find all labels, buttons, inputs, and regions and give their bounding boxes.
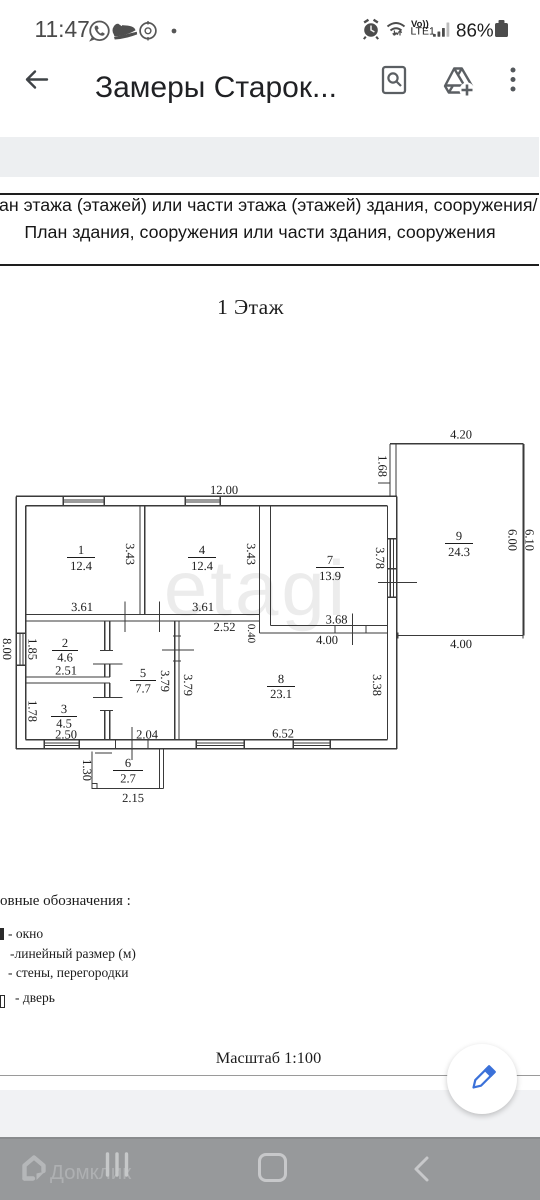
legend row linear size <box>10 946 136 962</box>
room9 bottom dim ticks <box>398 633 523 639</box>
door ticks room7 bottom wall <box>335 626 366 634</box>
svg-text:3.68: 3.68 <box>326 613 348 627</box>
wall main left inner <box>25 506 27 740</box>
recents nav button <box>103 1150 135 1180</box>
porch left wall <box>91 752 93 784</box>
navigation bar <box>0 1137 540 1200</box>
grey gap band above page <box>0 137 539 177</box>
dim tick 3.68 <box>351 614 353 646</box>
room2 box top <box>26 620 105 622</box>
svg-text:2.50: 2.50 <box>55 728 77 742</box>
svg-text:4.6: 4.6 <box>57 651 73 665</box>
svg-text:3.79: 3.79 <box>158 670 172 692</box>
svg-text:4.00: 4.00 <box>316 633 338 647</box>
dim tick 1.30 <box>95 752 112 754</box>
svg-text:8.00: 8.00 <box>0 638 14 660</box>
svg-text:1: 1 <box>78 543 84 557</box>
status time <box>35 16 90 43</box>
wall room8 top line <box>260 632 388 634</box>
svg-text:1.68: 1.68 <box>376 455 390 477</box>
wall rooms2-3 divider <box>26 677 110 683</box>
FAB pencil icon <box>459 1056 505 1102</box>
window W5 bottom wall <box>44 740 79 749</box>
room9 right wall <box>523 444 525 636</box>
window W3 left wall <box>16 633 25 665</box>
door jamb ticks rooms1-4 <box>125 602 160 633</box>
header text line 1 <box>0 195 540 216</box>
svg-text:4.20: 4.20 <box>450 428 472 442</box>
wall rooms1-4 bottom lower line <box>26 620 260 622</box>
status notification icons svg <box>88 14 198 48</box>
svg-text:13.9: 13.9 <box>319 569 341 583</box>
whatsapp icon <box>90 22 109 41</box>
wifi icon <box>388 23 405 34</box>
wall rooms1-4 bottom upper line <box>26 614 260 616</box>
window W6 bottom wall <box>196 740 244 749</box>
svg-text:3.61: 3.61 <box>192 600 214 614</box>
svg-text:6.00: 6.00 <box>506 529 520 551</box>
wall room5-8 right line <box>178 621 180 740</box>
wall main right outer <box>396 496 398 749</box>
svg-text:12.4: 12.4 <box>191 559 214 573</box>
svg-text:1.78: 1.78 <box>26 700 40 722</box>
svg-text:2.52: 2.52 <box>214 620 236 634</box>
kebab menu icon <box>505 64 521 96</box>
domclick house logo <box>20 1154 50 1184</box>
domclick watermark text <box>50 1161 131 1185</box>
svg-text:2: 2 <box>62 636 68 650</box>
svg-text:2.15: 2.15 <box>122 791 144 805</box>
watch badge icon <box>140 21 156 41</box>
svg-text:86%: 86% <box>456 20 494 41</box>
wall main top outer <box>16 495 397 497</box>
svg-text:1.85: 1.85 <box>26 638 40 660</box>
app bar back arrow <box>22 66 50 94</box>
svg-text:8: 8 <box>278 672 284 686</box>
svg-text:12.4: 12.4 <box>70 559 93 573</box>
svg-text:23.1: 23.1 <box>270 687 292 701</box>
room9 left wall upper <box>390 444 396 497</box>
svg-text:3.43: 3.43 <box>123 543 137 565</box>
window W1 top wall <box>63 496 104 506</box>
wall main right inner <box>387 506 389 740</box>
door ticks wall room5-8 <box>162 636 194 661</box>
alarm clock icon <box>363 19 379 40</box>
wall rooms23-5 right line <box>109 621 111 740</box>
svg-text:24.3: 24.3 <box>448 545 470 559</box>
status bar <box>0 0 540 55</box>
dim tick right wall <box>378 581 417 583</box>
table border line 2 <box>0 264 539 266</box>
svg-text:LTE1: LTE1 <box>411 26 435 38</box>
home nav button <box>258 1153 287 1182</box>
porch bottom wall <box>97 787 164 789</box>
wall rooms23-5 left line <box>104 621 106 740</box>
sneaker icon <box>111 19 138 41</box>
bullet dot <box>172 29 177 34</box>
door jambs room2 <box>93 651 123 665</box>
signal bars <box>433 23 449 37</box>
wall rooms1-4 divider <box>140 506 145 615</box>
svg-text:5: 5 <box>140 666 146 680</box>
scale caption <box>0 1048 537 1068</box>
legend row walls <box>8 965 128 981</box>
wall main bottom outer <box>16 748 397 750</box>
legend row window <box>8 926 43 942</box>
svg-text:2.04: 2.04 <box>136 728 159 742</box>
porch right wall double <box>160 749 164 789</box>
app bar title <box>95 71 337 105</box>
FAB edit button <box>447 1044 517 1114</box>
battery icon <box>495 23 508 37</box>
door ticks bottom wall <box>116 740 149 749</box>
find-in-document icon <box>379 64 409 96</box>
svg-text:6: 6 <box>125 756 131 770</box>
legend window symbol <box>0 928 4 940</box>
svg-text:3.43: 3.43 <box>244 543 258 565</box>
wall room4-7 right line <box>270 506 272 626</box>
svg-text:7.7: 7.7 <box>135 682 151 696</box>
viewer background band <box>0 1090 540 1137</box>
tick 2.04 divider <box>131 727 133 760</box>
door jambs room3 <box>93 697 123 710</box>
svg-text:3.78: 3.78 <box>373 547 387 569</box>
svg-text:3.79: 3.79 <box>181 674 195 696</box>
wall room7 bottom upper line <box>271 625 388 627</box>
status right icons svg <box>352 12 522 46</box>
wall main top inner <box>26 505 388 507</box>
table border line 1 <box>0 193 539 195</box>
porch corner block <box>92 784 97 789</box>
legend door symbol <box>0 995 5 1008</box>
window W7 bottom wall <box>293 740 330 749</box>
navigation bar top edge <box>0 1137 540 1139</box>
header text line 2 <box>0 222 520 243</box>
svg-text:3.61: 3.61 <box>71 600 93 614</box>
svg-text:2.51: 2.51 <box>55 664 77 678</box>
svg-text:2.7: 2.7 <box>120 772 136 786</box>
wall room4-7 left line <box>259 506 261 633</box>
svg-text:9: 9 <box>456 529 462 543</box>
svg-text:0.40: 0.40 <box>245 624 257 644</box>
room9 bottom dim line <box>397 635 524 637</box>
wifi data arrows <box>393 31 402 36</box>
wall room5-8 left line <box>174 621 176 740</box>
svg-text:4: 4 <box>199 543 206 557</box>
svg-text:12.00: 12.00 <box>210 483 238 497</box>
legend row door <box>15 990 55 1006</box>
room9 top wall <box>390 443 524 445</box>
window W2 top wall <box>185 496 220 506</box>
svg-text:3: 3 <box>61 702 67 716</box>
svg-text:1.30: 1.30 <box>80 759 94 781</box>
floor title "1 Этаж" <box>0 295 501 320</box>
page bottom edge line <box>0 1075 540 1076</box>
dim tick 1.68 <box>378 482 390 484</box>
svg-text:4.00: 4.00 <box>450 637 472 651</box>
svg-text:3.38: 3.38 <box>370 674 384 696</box>
back nav button <box>408 1154 436 1184</box>
svg-text:6.52: 6.52 <box>272 727 294 741</box>
drive add icon <box>441 64 475 98</box>
svg-text:6.10: 6.10 <box>523 529 537 551</box>
window W4 right wall <box>388 539 397 597</box>
wall main left outer <box>15 496 17 749</box>
wall main bottom inner <box>26 739 388 741</box>
svg-text:7: 7 <box>327 553 333 567</box>
legend title <box>0 893 131 910</box>
